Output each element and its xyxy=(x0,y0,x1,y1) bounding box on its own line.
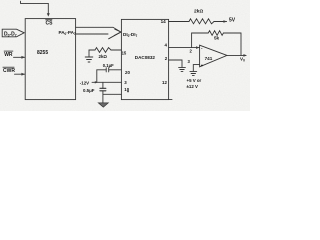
svg-text:15: 15 xyxy=(122,51,127,56)
svg-text:CWR: CWR xyxy=(3,68,15,74)
svg-text:8255: 8255 xyxy=(37,50,48,56)
svg-text:5V: 5V xyxy=(229,18,236,24)
svg-text:0.1μF: 0.1μF xyxy=(103,63,114,68)
svg-text:5k: 5k xyxy=(214,36,220,41)
svg-text:DAC0832: DAC0832 xyxy=(135,55,156,60)
svg-text:±12 V: ±12 V xyxy=(187,84,199,89)
svg-text:10: 10 xyxy=(124,87,129,92)
svg-text:+: + xyxy=(201,63,204,68)
svg-text:14: 14 xyxy=(161,19,167,24)
svg-text:741: 741 xyxy=(205,56,213,61)
svg-text:+5 V or: +5 V or xyxy=(187,78,202,83)
svg-text:WR: WR xyxy=(4,52,13,58)
svg-text:2kΩ: 2kΩ xyxy=(99,54,108,59)
svg-text:12: 12 xyxy=(162,80,167,85)
svg-text:0.5μF: 0.5μF xyxy=(83,88,95,93)
svg-text:-12V: -12V xyxy=(80,81,89,86)
svg-text:20: 20 xyxy=(125,70,130,75)
svg-text:2kΩ: 2kΩ xyxy=(194,9,203,15)
svg-text:CS: CS xyxy=(46,20,54,26)
